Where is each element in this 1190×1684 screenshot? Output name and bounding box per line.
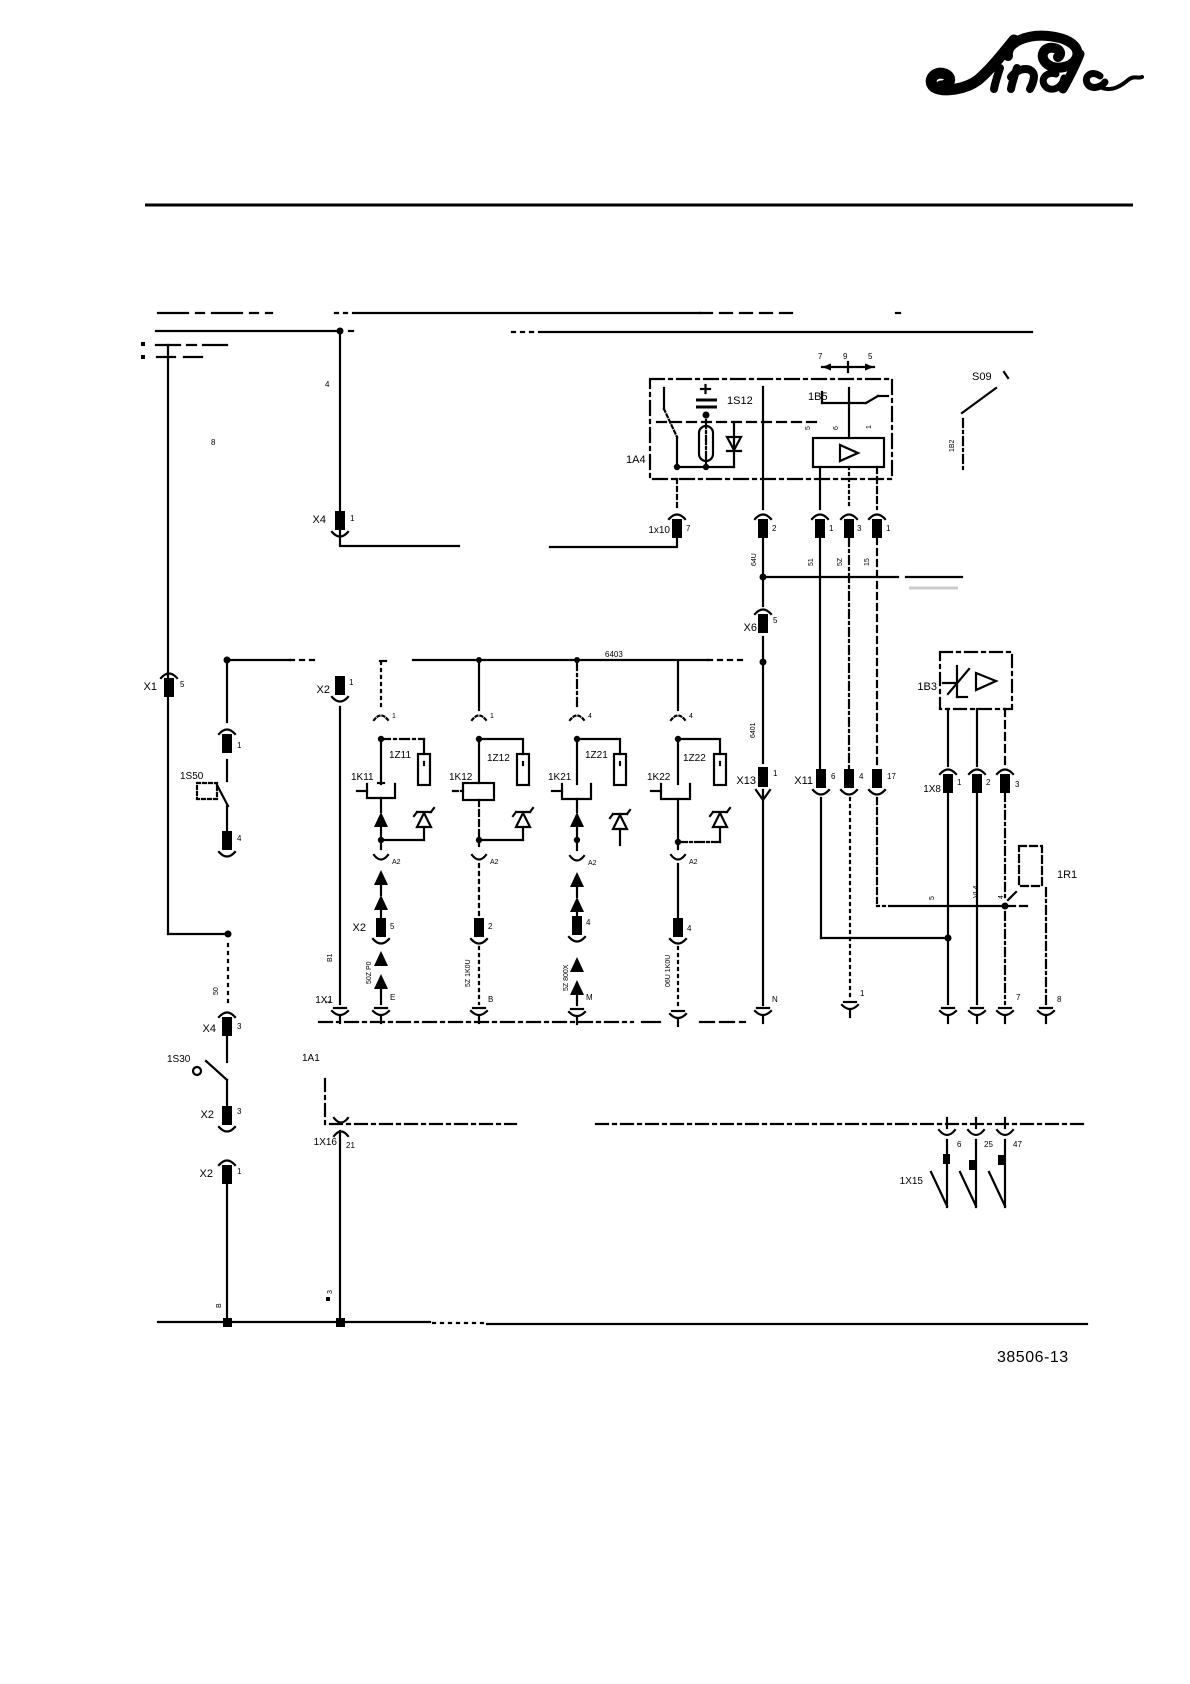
wire k11 join <box>378 827 424 843</box>
label 6401 rotated <box>750 722 757 738</box>
svg-text:1: 1 <box>237 741 242 750</box>
svg-text:6: 6 <box>831 772 836 781</box>
svg-text:06U 1K0U: 06U 1K0U <box>665 955 672 987</box>
svg-text:1X1: 1X1 <box>315 995 333 1006</box>
connector 1X10 pin <box>648 515 691 539</box>
node k12 <box>476 736 482 742</box>
resistor 1R1 <box>1019 846 1077 886</box>
resistor 1Z12 <box>487 753 529 785</box>
module 1A1 bottom boundary <box>319 1021 745 1023</box>
svg-text:1Z11: 1Z11 <box>389 750 411 761</box>
svg-text:38506-13: 38506-13 <box>997 1349 1069 1366</box>
wire 1A4 bottom <box>674 437 734 470</box>
diode 1V12 <box>513 808 533 840</box>
svg-text:21: 21 <box>346 1141 355 1150</box>
svg-text:6: 6 <box>957 1140 962 1149</box>
svg-text:1A1: 1A1 <box>302 1053 320 1064</box>
svg-text:1A4: 1A4 <box>626 454 646 466</box>
wire vertical x340 upper <box>339 331 341 511</box>
wire bus 6403 horizontal <box>224 650 749 664</box>
connector plug k12 mid <box>472 843 499 866</box>
svg-text:7: 7 <box>1016 993 1021 1002</box>
wire 1X8-3 down <box>1002 793 1017 1004</box>
svg-text:X13: X13 <box>736 775 756 787</box>
connector 1X8 <box>923 770 1020 796</box>
svg-text:1Z22: 1Z22 <box>683 753 706 764</box>
resistor 1Z21 <box>585 750 626 785</box>
svg-text:1B3: 1B3 <box>917 681 937 693</box>
svg-text:5: 5 <box>180 680 185 689</box>
svg-text:5: 5 <box>773 616 778 625</box>
wire 1X8-2 down <box>976 793 978 1004</box>
svg-text:A2: A2 <box>490 859 499 866</box>
switch 1S50 <box>180 760 228 806</box>
diode 1V22 <box>710 808 730 842</box>
wire k22 tail <box>677 947 679 1006</box>
module 1B5 label <box>808 391 828 403</box>
wire row C dashed <box>141 342 230 346</box>
svg-text:X1: X1 <box>144 681 157 693</box>
connector plug k12 top <box>472 713 494 720</box>
connector pin b1 <box>812 515 834 539</box>
wire dashed mid 1A4 <box>657 421 818 423</box>
switch blade in 1A4 <box>664 388 677 437</box>
connector 1X16 <box>314 1118 356 1150</box>
wire x340 to ground <box>326 1131 340 1322</box>
solenoid coil in 1A4 <box>699 420 713 468</box>
connector pin left d <box>200 1161 242 1185</box>
svg-text:5Z 800X: 5Z 800X <box>563 964 570 991</box>
connector plug k22 top <box>671 713 693 720</box>
switch 1X15 c <box>989 1118 1022 1207</box>
svg-text:1K11: 1K11 <box>351 772 374 783</box>
wire net 57 horizontal <box>760 574 963 581</box>
diode in 1A4 <box>727 422 741 467</box>
module 1B3 box <box>917 652 1012 709</box>
wire net b-corner horizontal <box>821 798 948 938</box>
svg-text:B: B <box>216 1303 223 1308</box>
pin labels 1B5 <box>805 425 873 430</box>
wire x340 long <box>325 707 340 1004</box>
svg-text:N: N <box>772 995 778 1004</box>
svg-text:1: 1 <box>350 514 355 523</box>
svg-text:50Z P0: 50Z P0 <box>366 961 373 984</box>
svg-text:X4: X4 <box>203 1023 216 1035</box>
svg-text:50: 50 <box>213 987 220 995</box>
svg-text:E: E <box>390 993 395 1002</box>
node bus 6403 <box>760 659 767 666</box>
label wire k22 rotated <box>665 955 672 987</box>
svg-text:7: 7 <box>686 524 691 533</box>
wire k12 branch <box>479 739 523 754</box>
wire left col mid <box>226 660 228 722</box>
svg-text:1: 1 <box>866 425 873 429</box>
connector X2 pin k21 <box>569 916 591 942</box>
wire k12 join <box>476 800 523 843</box>
svg-text:51: 51 <box>808 558 815 566</box>
labels 7 9 5 <box>818 352 873 361</box>
svg-text:9: 9 <box>843 352 848 361</box>
label 64U rotated <box>751 553 758 566</box>
svg-text:1R1: 1R1 <box>1057 869 1077 881</box>
arrow k11 a <box>374 798 388 827</box>
connector X6 <box>744 610 778 635</box>
svg-text:1X8: 1X8 <box>923 784 941 795</box>
svg-text:5Z 1K0U: 5Z 1K0U <box>465 959 472 987</box>
arrows k11 b <box>374 870 388 918</box>
svg-text:4: 4 <box>586 918 591 927</box>
op-amp 1B3 <box>976 673 996 690</box>
connector pin bus <box>755 515 777 539</box>
wire row D dashed <box>141 355 204 359</box>
svg-text:7: 7 <box>818 352 823 361</box>
connector pin b3 <box>869 515 891 539</box>
connector X2 pin k22 <box>670 918 692 944</box>
relay coil 1K21 <box>548 742 591 799</box>
connector X4 pin bottom <box>203 1013 242 1037</box>
drawing number <box>997 1349 1069 1366</box>
ghost line <box>909 587 958 590</box>
wire k21 join <box>574 827 580 843</box>
label wire k12 rotated <box>465 959 472 987</box>
socket k11 bottom <box>373 1008 389 1023</box>
label 8 <box>211 438 216 447</box>
wire k22 branch <box>678 739 720 754</box>
wires b column mid <box>820 538 877 769</box>
label wire k11 rotated <box>366 961 373 984</box>
svg-text:1: 1 <box>957 778 962 787</box>
svg-text:4: 4 <box>687 924 692 933</box>
relay K11 column <box>380 662 382 710</box>
arrows k11 c <box>374 951 395 1004</box>
relay coil 1K11 <box>351 742 395 798</box>
wire row A top dashed <box>158 312 900 314</box>
wire bus vertical <box>762 387 764 1005</box>
svg-text:2: 2 <box>488 922 493 931</box>
wire left to ground <box>216 1184 227 1322</box>
connector pin left b <box>219 806 242 857</box>
svg-text:4: 4 <box>859 772 864 781</box>
switch 1S30 <box>167 1036 227 1080</box>
relay K12 column <box>478 662 480 710</box>
wire b3 lower dashed <box>876 798 878 903</box>
connector X2 pin k12 <box>471 918 493 944</box>
resistor 1Z22 <box>683 753 726 785</box>
wire 1A4 exit dashed <box>676 479 678 508</box>
svg-text:1K22: 1K22 <box>647 772 671 783</box>
svg-text:1x10: 1x10 <box>648 525 670 536</box>
connector X13 pin <box>736 767 778 800</box>
svg-text:47: 47 <box>1013 1140 1022 1149</box>
connector X4 pin <box>313 511 355 537</box>
arrows k21 c <box>570 957 593 1005</box>
svg-text:8: 8 <box>211 438 216 447</box>
connector plug k11 mid <box>374 840 401 866</box>
connector X11 pins <box>794 769 896 795</box>
node k22 <box>675 736 681 742</box>
svg-text:1: 1 <box>860 989 865 998</box>
wire k12 down dashed <box>478 864 480 918</box>
svg-text:5: 5 <box>390 922 395 931</box>
arrows k21 b <box>570 872 584 916</box>
socket 1X8-3 bottom <box>997 993 1021 1023</box>
header rule <box>145 204 1133 207</box>
svg-text:A2: A2 <box>689 859 698 866</box>
svg-text:VL4: VL4 <box>973 885 980 898</box>
svg-text:3: 3 <box>857 524 862 533</box>
connector pin b2 <box>841 515 862 539</box>
socket 1R1 bottom <box>1038 995 1062 1023</box>
wire from X4 to 1X10 <box>340 530 677 547</box>
connector plug k22 mid <box>671 842 698 866</box>
svg-text:64U: 64U <box>751 553 758 566</box>
svg-text:4: 4 <box>998 895 1005 899</box>
svg-text:5: 5 <box>805 426 812 430</box>
connector plug k21 top <box>570 713 592 720</box>
wire k22 down <box>677 864 679 918</box>
sensor 1B3 <box>943 666 969 697</box>
svg-text:1Z12: 1Z12 <box>487 753 510 764</box>
dimension arrow <box>822 362 874 372</box>
svg-text:3: 3 <box>327 1290 334 1294</box>
wire k22 join <box>675 799 720 845</box>
svg-text:1K12: 1K12 <box>449 772 473 783</box>
svg-text:1: 1 <box>392 713 396 720</box>
resistor 1Z11 <box>389 750 430 785</box>
svg-text:S09: S09 <box>972 371 992 383</box>
svg-text:6401: 6401 <box>750 722 757 738</box>
wire row B <box>156 331 1032 332</box>
svg-text:8: 8 <box>1057 995 1062 1004</box>
wire vertical left <box>167 345 169 934</box>
svg-text:1: 1 <box>773 769 778 778</box>
socket 1X8-1 bottom <box>940 1008 956 1023</box>
connector X2 pin top <box>317 676 354 702</box>
svg-text:3: 3 <box>237 1022 242 1031</box>
svg-text:1B2: 1B2 <box>949 439 956 452</box>
socket k12 bottom <box>471 1008 487 1023</box>
wire k12 tail dotted <box>479 947 493 1004</box>
svg-text:2: 2 <box>986 778 991 787</box>
svg-text:1Z21: 1Z21 <box>585 750 608 761</box>
svg-text:2: 2 <box>772 524 777 533</box>
socket x340 bottom <box>315 995 348 1023</box>
label wire k21 rotated <box>563 964 570 991</box>
svg-text:1: 1 <box>237 1167 242 1176</box>
svg-text:4: 4 <box>588 713 592 720</box>
svg-text:X2: X2 <box>200 1168 213 1180</box>
svg-text:B: B <box>488 995 493 1004</box>
wire left corner <box>168 931 232 938</box>
connector plug k21 mid <box>570 840 597 867</box>
switch 1X15 a <box>931 1118 962 1207</box>
svg-text:X2: X2 <box>353 922 366 934</box>
svg-text:X2: X2 <box>317 684 330 696</box>
wires 1B3 leads <box>948 709 1005 766</box>
op-amp 1B5 <box>813 438 884 467</box>
svg-text:B1: B1 <box>327 953 334 962</box>
svg-text:15: 15 <box>864 558 871 566</box>
wire net vla horizontal <box>877 885 1032 906</box>
node k11 <box>378 736 384 742</box>
svg-text:17: 17 <box>887 772 896 781</box>
socket k22 bottom <box>670 1011 686 1026</box>
svg-text:5Z: 5Z <box>837 557 844 566</box>
svg-text:1: 1 <box>886 524 891 533</box>
connector X1 pin <box>144 674 185 698</box>
sensor symbol 1B5 <box>822 388 888 438</box>
svg-text:M: M <box>586 993 593 1002</box>
wire k11 branch <box>381 739 424 754</box>
svg-text:X11: X11 <box>794 775 813 787</box>
wire 1R1 down <box>1045 888 1047 1004</box>
switch 1X15 b <box>960 1118 993 1207</box>
svg-text:1B5: 1B5 <box>808 391 828 403</box>
node k21 <box>574 736 580 742</box>
svg-text:A2: A2 <box>392 859 401 866</box>
relay coil 1K22 <box>647 742 690 799</box>
svg-text:X6: X6 <box>744 622 757 634</box>
socket 1X8-2 bottom <box>969 1008 985 1023</box>
svg-text:1S12: 1S12 <box>727 395 753 407</box>
connector pin left c <box>201 1080 242 1132</box>
wire dotted left down <box>213 944 228 1008</box>
node junction top <box>337 328 344 335</box>
connector pin left a <box>219 730 242 754</box>
svg-text:X2: X2 <box>201 1109 214 1121</box>
svg-text:4: 4 <box>237 834 242 843</box>
wire k21 branch <box>577 739 620 754</box>
svg-text:1: 1 <box>349 678 354 687</box>
svg-text:5: 5 <box>929 896 936 900</box>
relay K21 column <box>576 662 578 710</box>
svg-text:6: 6 <box>833 426 840 430</box>
svg-text:X4: X4 <box>313 514 326 526</box>
svg-text:1: 1 <box>829 524 834 533</box>
svg-text:5: 5 <box>868 352 873 361</box>
arrow k21 a <box>570 799 584 827</box>
svg-text:1X16: 1X16 <box>314 1137 338 1148</box>
svg-text:1S50: 1S50 <box>180 771 204 782</box>
label 1X15 <box>900 1176 924 1187</box>
svg-text:1S30: 1S30 <box>167 1054 191 1065</box>
svg-text:6403: 6403 <box>605 650 623 659</box>
socket k21 bottom <box>569 1009 585 1024</box>
Linde logo <box>931 36 1142 90</box>
switch S09 <box>949 371 1008 470</box>
svg-text:3: 3 <box>237 1107 242 1116</box>
svg-text:3: 3 <box>1015 780 1020 789</box>
svg-text:1K21: 1K21 <box>548 772 572 783</box>
switch contact 1S12 <box>696 385 753 419</box>
svg-text:25: 25 <box>984 1140 993 1149</box>
diode 1V11 <box>414 808 434 840</box>
relay coil 1K12 <box>449 742 494 800</box>
module 1A1 boundary <box>302 1053 1085 1124</box>
relay K22 column <box>677 662 679 710</box>
ground bus bottom <box>158 1318 1087 1327</box>
svg-text:4: 4 <box>689 713 693 720</box>
svg-text:4: 4 <box>325 380 330 389</box>
labels wire rotated b <box>808 557 871 566</box>
wire 1X8-1 down <box>945 793 952 1004</box>
diode 1V21 <box>610 810 630 845</box>
socket bus bottom <box>755 995 778 1023</box>
module 1A4 box <box>626 379 892 479</box>
label 4 <box>325 380 330 389</box>
svg-text:1: 1 <box>490 713 494 720</box>
socket b2 bottom <box>842 798 865 1017</box>
connector X2 pin k11 <box>353 918 395 944</box>
svg-text:A2: A2 <box>588 860 597 867</box>
wire 1B5 leads down <box>820 467 877 509</box>
svg-text:1X15: 1X15 <box>900 1176 924 1187</box>
connector plug k11 top <box>374 713 396 720</box>
